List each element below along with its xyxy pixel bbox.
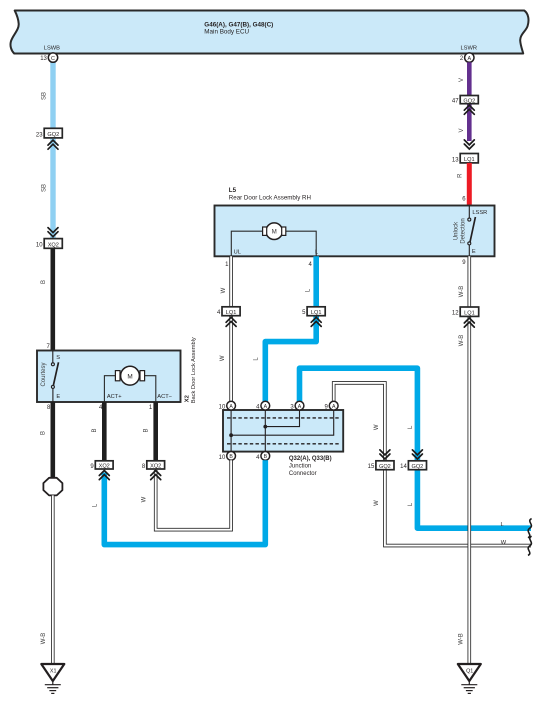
X2 Back Door Lock Assembly box — [37, 351, 181, 403]
wire B from X2 pin 8 to octagon — [50, 402, 55, 478]
junction internal wires — [231, 410, 334, 452]
svg-text:B: B — [229, 454, 233, 460]
svg-text:10: 10 — [36, 243, 43, 249]
connector 8 XQ2 — [142, 461, 165, 470]
svg-text:LQ1: LQ1 — [311, 310, 322, 316]
svg-text:Q1: Q1 — [466, 669, 473, 675]
wire L blue jog from 5 LQ1 to junction 4A — [265, 315, 316, 402]
svg-text:W-B: W-B — [41, 633, 47, 645]
svg-text:13: 13 — [452, 157, 459, 163]
svg-text:E: E — [56, 394, 60, 400]
ground Q1 — [458, 664, 481, 693]
svg-text:23: 23 — [36, 132, 43, 138]
junction pin 10 B — [227, 452, 236, 461]
svg-text:B: B — [41, 280, 47, 284]
courtesy switch in X2 — [51, 351, 58, 403]
svg-text:L: L — [315, 250, 318, 256]
svg-text:W: W — [374, 424, 380, 430]
svg-text:GQ2: GQ2 — [463, 98, 475, 104]
svg-text:V: V — [459, 78, 465, 82]
wire W from 8 XQ2 to junction 10B — [156, 460, 231, 530]
svg-text:V: V — [459, 128, 465, 132]
svg-text:Courtesy: Courtesy — [41, 362, 47, 386]
svg-text:W-B: W-B — [459, 286, 465, 298]
svg-text:GQ2: GQ2 — [379, 464, 391, 470]
wire from motor to L terminal — [282, 231, 316, 256]
junction pin 3 A — [295, 401, 304, 410]
wire W from junction 9A over to 15 GQ2 — [334, 383, 385, 461]
motor M in X2 — [115, 366, 144, 385]
svg-text:B: B — [144, 428, 150, 432]
svg-text:R: R — [458, 173, 464, 178]
svg-text:X1: X1 — [50, 669, 57, 675]
junction pin 4 A — [261, 401, 270, 410]
svg-text:14: 14 — [400, 464, 407, 470]
wire L blue from L pin to 5 LQ1 — [313, 256, 319, 308]
connector 13 LQ1 — [452, 154, 478, 164]
chevron up below 8 XQ2 — [151, 471, 161, 480]
connector 9 XQ2 — [90, 461, 113, 470]
svg-text:C: C — [51, 56, 55, 62]
svg-text:XQ2: XQ2 — [99, 464, 110, 470]
connector 15 GQ2 — [368, 461, 394, 470]
svg-text:A: A — [298, 404, 302, 410]
chevron up below 23 GQ2 — [48, 140, 58, 149]
svg-text:Main Body ECU: Main Body ECU — [204, 29, 249, 36]
dashed bus lines — [227, 417, 340, 419]
svg-text:ACT−: ACT− — [157, 394, 172, 400]
svg-text:E: E — [472, 249, 476, 255]
svg-text:Back Door Lock Assembly: Back Door Lock Assembly — [191, 337, 197, 403]
svg-text:Rear Door Lock Assembly RH: Rear Door Lock Assembly RH — [229, 195, 311, 202]
svg-text:W: W — [220, 355, 226, 361]
svg-text:W-B: W-B — [459, 633, 465, 645]
wire W-B from L5 pin 9 down right column — [467, 256, 471, 664]
svg-text:A: A — [229, 404, 233, 410]
svg-text:15: 15 — [368, 464, 375, 470]
break mark on W wire — [528, 536, 532, 555]
svg-text:W: W — [141, 496, 147, 502]
ground X1 — [41, 664, 64, 693]
wire V purple right column — [467, 62, 472, 97]
connector 12 LQ1 — [452, 307, 479, 317]
wire W from UL pin down to junction 10A — [229, 256, 233, 401]
svg-text:GQ2: GQ2 — [411, 464, 423, 470]
chevron up below 4 LQ1 — [226, 317, 236, 326]
chevron up below 9 XQ2 — [99, 471, 109, 480]
svg-text:G46(A), G47(B), G48(C): G46(A), G47(B), G48(C) — [204, 21, 273, 28]
svg-text:UL: UL — [234, 250, 241, 256]
chevron up below 5 LQ1 — [311, 317, 321, 326]
svg-text:W: W — [501, 540, 507, 546]
wire L blue from 9 XQ2 to junction 4B — [104, 460, 265, 544]
junction connector Q32(A) Q33(B) box — [223, 410, 343, 452]
svg-text:B: B — [264, 454, 268, 460]
svg-text:Detection: Detection — [460, 218, 466, 243]
svg-text:Q32(A), Q33(B): Q32(A), Q33(B) — [289, 456, 332, 462]
svg-text:SB: SB — [42, 92, 48, 100]
junction pin 9 A — [329, 401, 338, 410]
wire from motor to UL terminal — [231, 231, 266, 256]
connector 47 GQ2 — [452, 96, 478, 105]
svg-text:W-B: W-B — [459, 335, 465, 347]
chevron up below 12 LQ1 — [464, 318, 474, 327]
svg-text:Junction: Junction — [289, 464, 311, 470]
svg-text:LQ1: LQ1 — [464, 311, 475, 317]
L5 Rear Door Lock Assembly RH box — [215, 206, 495, 257]
Main Body ECU band — [11, 11, 529, 54]
svg-text:47: 47 — [452, 99, 459, 105]
motor M in L5 — [263, 223, 286, 240]
chevron up below 47 GQ2 — [464, 105, 474, 114]
svg-text:LSSR: LSSR — [472, 210, 487, 216]
wire W below 15 GQ2 to right edge — [385, 470, 531, 546]
svg-text:10: 10 — [219, 404, 226, 410]
octagon splice — [43, 478, 62, 496]
wire blue below 14 GQ2 to right edge — [417, 470, 531, 529]
svg-text:GQ2: GQ2 — [47, 132, 59, 138]
svg-text:L5: L5 — [229, 187, 237, 194]
wire from motor to ACT- — [144, 376, 156, 402]
svg-text:SB: SB — [42, 184, 48, 192]
svg-text:ACT+: ACT+ — [107, 394, 122, 400]
svg-text:Connector: Connector — [289, 471, 317, 477]
connector 23 GQ2 — [36, 128, 62, 138]
svg-text:B: B — [41, 431, 47, 435]
wire W-B from octagon to ground X1 — [51, 495, 55, 663]
svg-text:A: A — [264, 404, 268, 410]
unlock detection switch in L5 — [468, 206, 476, 256]
wire B to X2 box — [50, 248, 55, 350]
svg-text:W: W — [374, 500, 380, 506]
connector 5 LQ1 — [302, 307, 325, 316]
svg-text:S: S — [56, 355, 60, 361]
chevron down above 15 GQ2 — [380, 450, 390, 459]
wire R red — [467, 163, 472, 206]
chevron down above 14 GQ2 — [412, 450, 422, 459]
connector 10 XQ2 — [36, 239, 62, 249]
svg-text:Unlock: Unlock — [454, 221, 460, 240]
break mark on L wire — [528, 519, 532, 538]
chevron down above 13 LQ1 — [464, 140, 474, 149]
svg-text:LQ1: LQ1 — [464, 157, 475, 163]
chevron down above 10 XQ2 — [48, 228, 58, 237]
svg-text:W: W — [221, 287, 227, 293]
svg-text:X2: X2 — [185, 395, 191, 402]
wire B from X2 pin 1 to 8 XQ2 — [153, 402, 158, 461]
svg-text:B: B — [92, 428, 98, 432]
svg-text:LQ1: LQ1 — [226, 310, 237, 316]
svg-text:10: 10 — [219, 455, 226, 461]
junction pin 4 B — [261, 452, 270, 461]
connector 4 LQ1 — [217, 307, 240, 316]
svg-text:XQ2: XQ2 — [48, 242, 59, 248]
svg-text:13: 13 — [40, 56, 47, 62]
svg-text:12: 12 — [452, 311, 459, 317]
svg-text:L: L — [501, 522, 504, 528]
svg-text:A: A — [332, 404, 336, 410]
svg-text:A: A — [467, 56, 471, 62]
wire from motor to ACT+ — [104, 376, 116, 402]
wire blue from junction 3A up over to 14 GQ2 — [300, 368, 418, 461]
svg-text:XQ2: XQ2 — [150, 464, 161, 470]
svg-text:LSWB: LSWB — [44, 46, 60, 52]
wire SB left column — [50, 62, 55, 130]
wire B from X2 pin 4 to 9 XQ2 — [102, 402, 107, 461]
svg-text:M: M — [272, 230, 277, 236]
svg-text:M: M — [127, 373, 132, 380]
pin 2 A on ECU — [465, 53, 474, 62]
junction pin 10 A — [227, 401, 236, 410]
pin 13 C on ECU — [48, 53, 57, 62]
connector 14 GQ2 — [400, 461, 426, 470]
svg-text:LSWR: LSWR — [461, 46, 477, 52]
